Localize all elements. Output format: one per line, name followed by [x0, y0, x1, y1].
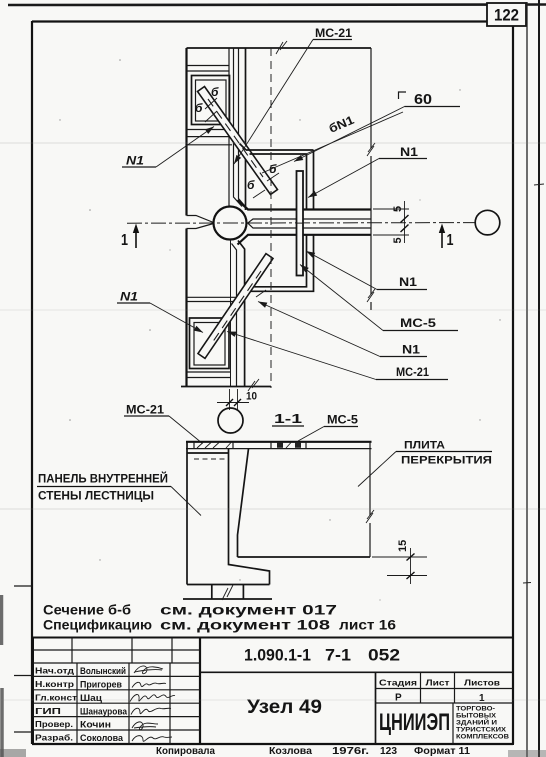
svg-text:60: 60 [414, 92, 432, 108]
left embedded plate in section [194, 442, 233, 449]
outer binding line B [538, 0, 540, 757]
label MC-5 section [298, 413, 358, 442]
upper horizontal joint band [187, 66, 230, 72]
dimension 10 below plan [217, 389, 257, 410]
left wall edge (upper segment) [185, 48, 187, 216]
corner edge piece lower [243, 235, 314, 298]
svg-text:5: 5 [392, 237, 404, 243]
svg-text:123: 123 [380, 746, 397, 757]
svg-text:Формат 11: Формат 11 [414, 746, 470, 757]
plan top edge [187, 47, 372, 49]
embedded plate MC-21 upper, inner rect [196, 80, 227, 121]
signature table horizontal lines [33, 650, 200, 730]
svg-text:б: б [211, 85, 219, 99]
section title 1-1 [272, 411, 304, 426]
svg-text:ПЕРЕКРЫТИЯ: ПЕРЕКРЫТИЯ [401, 455, 492, 467]
label MC-21 right lower [226, 329, 448, 380]
svg-text:см. документ 017: см. документ 017 [160, 603, 337, 618]
footing blocks [183, 585, 272, 599]
svg-text:КОМПЛЕКСОВ: КОМПЛЕКСОВ [456, 734, 509, 741]
label panel of inner stair wall [37, 473, 201, 516]
section mark 1 left [121, 224, 139, 250]
section second line [186, 448, 372, 450]
right embedded plate in section [271, 442, 306, 449]
svg-text:Пригорев: Пригорев [80, 680, 122, 691]
dashed hidden line vertical [270, 48, 272, 388]
svg-text:Листов: Листов [464, 679, 500, 688]
label N1 right middle [305, 249, 427, 290]
left wall edge (lower segment) [185, 229, 187, 387]
vertical plate N1 [297, 171, 304, 276]
outer binding line A [526, 2, 528, 757]
svg-text:ПЛИТА: ПЛИТА [404, 440, 445, 452]
svg-text:N1: N1 [399, 275, 417, 289]
horizontal wall top edge [238, 200, 372, 210]
svg-text:1: 1 [447, 232, 454, 249]
note line 1 [43, 603, 337, 618]
slab right edge with break [369, 442, 371, 557]
label N1 left upper [122, 124, 216, 167]
svg-text:ЦНИИЭП: ЦНИИЭП [379, 709, 450, 736]
horizontal wall joint line lower [248, 223, 371, 228]
hidden dashed line in wall [194, 458, 225, 460]
svg-text:1: 1 [479, 693, 485, 704]
svg-text:122: 122 [494, 6, 519, 25]
plan right boundary line with breaks [370, 48, 372, 310]
break mark upper on right boundary [367, 143, 375, 156]
break mark lower on right boundary [367, 289, 375, 302]
wall panel in section [187, 442, 270, 585]
svg-text:N1: N1 [126, 154, 144, 168]
stadiya list listov grid [376, 672, 514, 703]
section mark 1 right [439, 224, 454, 250]
svg-text:1976г.: 1976г. [332, 746, 369, 757]
svg-text:Лист: Лист [426, 679, 450, 688]
svg-text:Шац: Шац [80, 693, 102, 704]
vertical joint line x229 [228, 48, 230, 207]
scan smudge bottom-left [0, 749, 26, 757]
right circle [475, 210, 500, 235]
break mark on slab edge [366, 510, 374, 523]
svg-text:Козлова: Козлова [269, 746, 312, 757]
label bN1 on leader [262, 112, 403, 173]
svg-text:МС-21: МС-21 [396, 365, 429, 379]
vertical joint line x238.5 with flare [239, 48, 248, 209]
svg-text:см. документ 108: см. документ 108 [160, 618, 331, 633]
copied-by footer line [156, 746, 470, 757]
grout hole circle at wall crossing [214, 207, 247, 240]
svg-text:Н.контр: Н.контр [35, 679, 74, 689]
svg-text:N1: N1 [402, 343, 420, 357]
svg-text:ПАНЕЛЬ ВНУТРЕННЕЙ: ПАНЕЛЬ ВНУТРЕННЕЙ [38, 473, 168, 486]
weld mark b near strap lower end right [267, 162, 279, 181]
joint band lines below upper plate [187, 130, 233, 145]
svg-text:1.090.1-1: 1.090.1-1 [244, 646, 311, 665]
svg-text:Соколова: Соколова [80, 733, 124, 744]
label 60 with weld hook [293, 92, 460, 164]
lower diagonal anchor strap [198, 254, 273, 359]
embedded plate MC-21 upper, outer rect [192, 76, 230, 125]
svg-text:Нач.отд: Нач.отд [35, 666, 75, 676]
faint scan streaks [0, 143, 546, 700]
svg-text:б: б [247, 178, 255, 192]
svg-text:Сечение б-б: Сечение б-б [43, 603, 131, 618]
svg-text:ТУРИСТСКИХ: ТУРИСТСКИХ [456, 727, 507, 734]
weld mark b left of strap [195, 101, 217, 122]
scan smudges left edge [0, 595, 4, 757]
signature 3 [130, 694, 175, 701]
slab end face [238, 449, 249, 557]
break through footing [222, 585, 233, 600]
svg-text:Стадия: Стадия [379, 679, 417, 688]
org cell divider [452, 703, 454, 744]
weld mark b near strap lower end left [247, 178, 265, 198]
label floor slab [358, 440, 492, 487]
break mark on top edge [276, 41, 287, 54]
svg-text:Разраб.: Разраб. [35, 733, 73, 743]
designation row divider [200, 671, 513, 673]
svg-text:МС-21: МС-21 [315, 26, 352, 40]
signature 2 [132, 682, 166, 687]
weld mark b upper-right of strap head [205, 85, 219, 109]
svg-text:Спецификацию: Спецификацию [43, 618, 152, 633]
svg-text:Копировала: Копировала [156, 746, 215, 757]
uzel cell divider [375, 672, 377, 744]
org descriptor lines [456, 706, 509, 741]
signature 6 [132, 736, 172, 742]
joint lines below circle [230, 240, 232, 387]
top revision row dividers [72, 638, 172, 664]
note line 2 [43, 618, 397, 633]
weld tick near lower strap [256, 290, 266, 297]
svg-text:N1: N1 [400, 145, 418, 159]
horizontal centerline [127, 222, 476, 225]
signature 1 [134, 666, 163, 674]
dimension 15 [372, 540, 427, 584]
svg-text:052: 052 [368, 646, 400, 665]
lower joint band [187, 372, 231, 378]
embedded plate MC-21 lower, outer rect [190, 318, 230, 369]
svg-text:Р: Р [395, 693, 402, 704]
dimension 5/5 at wall end [373, 201, 409, 244]
joint line below circle x236.5 [232, 244, 237, 387]
corner edge piece upper (horizontal panel end) [240, 144, 314, 210]
scan smudge bottom-right [508, 750, 546, 757]
band below circle [187, 297, 241, 301]
label N1 right lower [257, 299, 427, 357]
svg-text:Кочин: Кочин [80, 720, 111, 731]
svg-text:1: 1 [121, 232, 128, 249]
plan bottom cut edge with break [181, 386, 271, 388]
svg-text:ЗДАНИЙ И: ЗДАНИЙ И [456, 718, 497, 727]
svg-text:СТЕНЫ ЛЕСТНИЦЫ: СТЕНЫ ЛЕСТНИЦЫ [38, 491, 154, 503]
svg-text:Провер.: Провер. [35, 719, 73, 729]
section top slab line [186, 441, 372, 443]
svg-text:ТОРГОВО-: ТОРГОВО- [456, 706, 495, 713]
embedded plate MC-21 lower, inner rect [194, 323, 225, 366]
title block outer frame [33, 638, 513, 745]
upper diagonal anchor strap [198, 87, 278, 195]
scan speckle dots [59, 59, 500, 600]
svg-text:Волынский: Волынский [80, 666, 126, 677]
signature column dividers [77, 663, 170, 744]
label MC-21 top [232, 26, 353, 166]
signature 4 [131, 708, 171, 714]
scan top edge line [8, 3, 546, 6]
svg-text:БЫТОВЫХ: БЫТОВЫХ [456, 713, 497, 720]
label MC-5 right [298, 262, 458, 330]
svg-text:МС-5: МС-5 [400, 316, 436, 330]
vertical joint line x245.5 [245, 48, 247, 210]
left margin fold ticks [14, 586, 32, 732]
horizontal wall bottom edge [238, 235, 372, 245]
svg-text:5: 5 [392, 206, 404, 212]
svg-text:б: б [195, 101, 203, 115]
svg-text:7-1: 7-1 [325, 646, 351, 665]
svg-text:Шанаурова: Шанаурова [80, 706, 128, 717]
svg-text:ГИП: ГИП [35, 706, 61, 716]
vertical joint line x233.5 with flare [234, 48, 243, 207]
signature 5 [132, 722, 158, 730]
signature table right border [199, 638, 201, 745]
label MC-21 section [124, 403, 203, 444]
svg-text:лист 16: лист 16 [339, 618, 397, 633]
svg-text:МС-5: МС-5 [327, 413, 358, 427]
horizontal wall joint line upper [248, 219, 371, 223]
left face joint opening taper [187, 216, 214, 229]
binding tick [523, 184, 544, 583]
svg-text:N1: N1 [120, 290, 138, 304]
label N1 right upper [307, 145, 427, 200]
slab bottom [238, 556, 371, 558]
svg-text:Гл.конст: Гл.конст [35, 692, 77, 702]
svg-text:1-1: 1-1 [274, 411, 302, 426]
svg-text:15: 15 [397, 540, 409, 552]
sheet number box 122 [487, 3, 526, 26]
joint line below circle x244.6 [238, 241, 245, 387]
break mark on bottom edge [248, 379, 259, 391]
node callout circle [218, 408, 243, 433]
svg-text:10: 10 [246, 391, 257, 403]
label N1 left lower [117, 290, 204, 335]
svg-text:МС-21: МС-21 [126, 403, 164, 417]
